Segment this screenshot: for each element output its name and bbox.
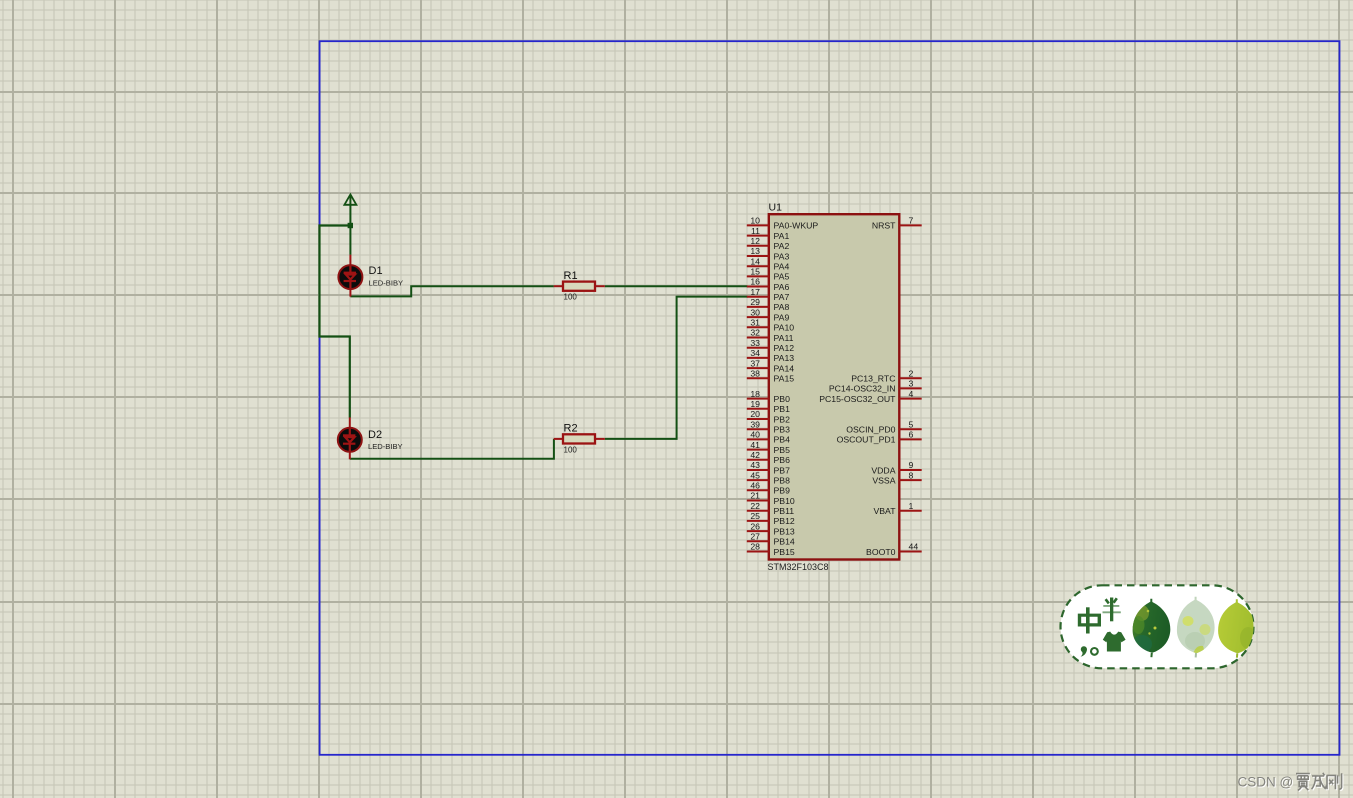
pin 3 (PC14-OSC32_IN) stub [899, 379, 922, 389]
pin 43 (PB7) stub [747, 460, 770, 470]
pin 44 (BOOT0) stub [899, 542, 922, 552]
resistor R2 pins [554, 438, 605, 440]
LED D2 pin stubs [349, 417, 351, 459]
svg-text:CSDN @: CSDN @ [1238, 775, 1294, 790]
wire D2 cathode to R2 [350, 439, 554, 459]
logo small circle [1091, 648, 1098, 655]
LED D1 pin stubs [349, 255, 351, 297]
MCU U1 body [769, 214, 900, 559]
logo hanzi BAN [1103, 598, 1121, 622]
pin 39 (PB3) stub [747, 419, 770, 429]
pin 19 (PB1) stub [747, 399, 770, 409]
pin 32 (PA11) stub [747, 328, 770, 338]
pin 21 (PB10) stub [747, 491, 770, 501]
logo leaf 2 (pale) [1177, 597, 1215, 658]
pin 18 (PB0) stub [747, 389, 770, 399]
pin 11 (PA1) stub [747, 226, 770, 236]
logo t-shirt icon [1103, 632, 1126, 652]
logo pill background [1061, 585, 1254, 668]
junction dot at power node [348, 223, 353, 228]
pin 17 (PA7) stub [747, 287, 770, 297]
pin 10 (PA0-WKUP) stub [747, 216, 770, 226]
logo leaf 1 (dark green) [1132, 599, 1170, 657]
pin 9 (VDDA) stub [899, 460, 922, 470]
wire R1 to PA6 pin16 [605, 285, 748, 287]
pin 7 (NRST) stub [899, 216, 922, 226]
pin 16 (PA6) stub [747, 277, 770, 287]
wire power junction to D1 anode [349, 226, 351, 255]
pin 1 (VBAT) stub [899, 501, 922, 511]
wire power junction to D2 anode (left drop) [320, 226, 351, 418]
pin 41 (PB5) stub [747, 440, 770, 450]
pin 46 (PB9) stub [747, 481, 770, 491]
watermark hanzi JIA [1296, 774, 1310, 791]
LED D2 body [338, 428, 362, 452]
pin 28 (PB15) stub [747, 542, 770, 552]
pin 29 (PA8) stub [747, 297, 770, 307]
pin 37 (PA14) stub [747, 358, 770, 368]
logo leaf 3 (yellow green) [1218, 599, 1256, 657]
pin 13 (PA3) stub [747, 246, 770, 256]
resistor R1 pins [554, 285, 605, 287]
pin 42 (PB6) stub [747, 450, 770, 460]
pin 34 (PA13) stub [747, 348, 770, 358]
wire D1 cathode to R1 [350, 286, 553, 296]
watermark hanzi GANG [1327, 773, 1342, 789]
pin 8 (VSSA) stub [899, 470, 922, 480]
LED D1 body [338, 265, 362, 289]
pin 14 (PA4) stub [747, 256, 770, 266]
resistor R2 body [563, 434, 595, 443]
watermark hanzi CHENG [1312, 773, 1327, 789]
wire R2 to PA7 pin17 [605, 297, 748, 439]
pin 25 (PB12) stub [747, 511, 770, 521]
pin 38 (PA15) stub [747, 368, 770, 378]
resistor R1 body [563, 282, 595, 291]
logo hanzi ZHONG [1078, 607, 1101, 633]
watermark CSDN @ [1238, 775, 1295, 791]
sheet border (blue) [320, 41, 1340, 755]
pin 31 (PA10) stub [747, 318, 770, 328]
pin 2 (PC13_RTC) stub [899, 368, 922, 378]
pin 5 (OSCIN_PD0) stub [899, 419, 922, 429]
power symbol VCC arrow [344, 194, 356, 225]
pin 6 (OSCOUT_PD1) stub [899, 430, 922, 440]
pin 40 (PB4) stub [747, 430, 770, 440]
pin 12 (PA2) stub [747, 236, 770, 246]
pin 22 (PB11) stub [747, 501, 770, 511]
pin 26 (PB13) stub [747, 521, 770, 531]
logo comma [1081, 646, 1087, 656]
pin 20 (PB2) stub [747, 409, 770, 419]
pin 33 (PA12) stub [747, 338, 770, 348]
pin 15 (PA5) stub [747, 267, 770, 277]
pin 30 (PA9) stub [747, 307, 770, 317]
pin 27 (PB14) stub [747, 532, 770, 542]
pin 45 (PB8) stub [747, 470, 770, 480]
pin 4 (PC15-OSC32_OUT) stub [899, 389, 922, 399]
